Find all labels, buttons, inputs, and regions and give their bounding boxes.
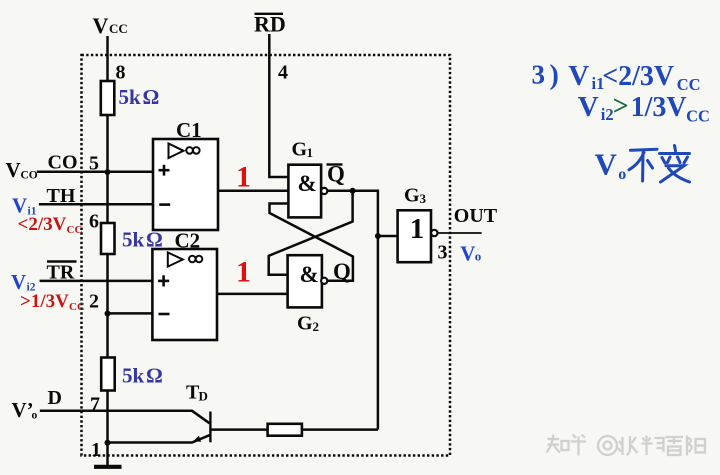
svg-text:>1/3V: >1/3V (20, 291, 69, 312)
svg-text:TH: TH (47, 185, 76, 207)
svg-text:): ) (550, 60, 559, 91)
svg-text:o: o (618, 166, 626, 183)
svg-text:>: > (613, 91, 629, 122)
svg-text:o: o (32, 410, 38, 422)
svg-text:2: 2 (313, 319, 320, 334)
svg-text:CC: CC (109, 21, 128, 36)
svg-text:CO: CO (21, 170, 38, 182)
svg-text:7: 7 (90, 394, 100, 416)
svg-text:Ω: Ω (146, 228, 163, 252)
svg-text:i2: i2 (601, 105, 614, 124)
svg-text:V: V (6, 158, 21, 182)
svg-text:&: & (300, 262, 319, 287)
svg-text:5: 5 (89, 153, 99, 175)
svg-text:2: 2 (89, 290, 99, 312)
svg-text:V: V (595, 147, 618, 182)
svg-text:CC: CC (67, 224, 83, 236)
svg-text:1: 1 (236, 256, 251, 289)
svg-text:3: 3 (420, 191, 427, 206)
svg-text:CO: CO (48, 151, 78, 173)
svg-text:D: D (48, 387, 62, 409)
svg-text:1: 1 (307, 145, 314, 160)
svg-text:V: V (93, 13, 109, 38)
svg-text:C2: C2 (175, 228, 201, 252)
svg-text:V: V (578, 91, 599, 123)
svg-text:Ω: Ω (146, 364, 163, 388)
svg-text:3: 3 (532, 59, 546, 89)
svg-text:<2/3V: <2/3V (602, 61, 674, 92)
svg-text:TR: TR (47, 262, 75, 284)
svg-text:8: 8 (116, 61, 126, 83)
svg-text:G: G (297, 312, 313, 334)
svg-text:CC: CC (686, 106, 710, 125)
svg-text:3: 3 (438, 241, 448, 263)
svg-text:5k: 5k (122, 364, 145, 388)
svg-text:G: G (404, 184, 420, 206)
svg-text:D: D (199, 389, 208, 404)
svg-text:RD: RD (254, 12, 286, 37)
svg-text:&: & (298, 171, 317, 196)
svg-text:4: 4 (278, 61, 288, 83)
svg-text:5k: 5k (122, 228, 145, 252)
svg-text:<2/3V: <2/3V (18, 214, 67, 235)
svg-text:C1: C1 (176, 118, 202, 142)
svg-text:OUT: OUT (454, 205, 498, 227)
svg-text:6: 6 (89, 210, 99, 232)
svg-text:V’: V’ (12, 398, 34, 422)
svg-text:V: V (568, 60, 589, 92)
svg-text:o: o (475, 248, 482, 263)
svg-text:5k: 5k (119, 85, 142, 109)
svg-text:V: V (460, 242, 475, 266)
svg-text:1/3V: 1/3V (631, 92, 687, 123)
svg-text:CC: CC (69, 301, 85, 313)
svg-text:Q: Q (327, 162, 345, 187)
svg-text:1: 1 (91, 439, 101, 461)
svg-text:Ω: Ω (143, 85, 160, 109)
svg-text:G: G (292, 138, 308, 160)
svg-text:Q: Q (333, 259, 351, 284)
svg-text:1: 1 (236, 160, 251, 193)
svg-text:1: 1 (410, 213, 425, 245)
